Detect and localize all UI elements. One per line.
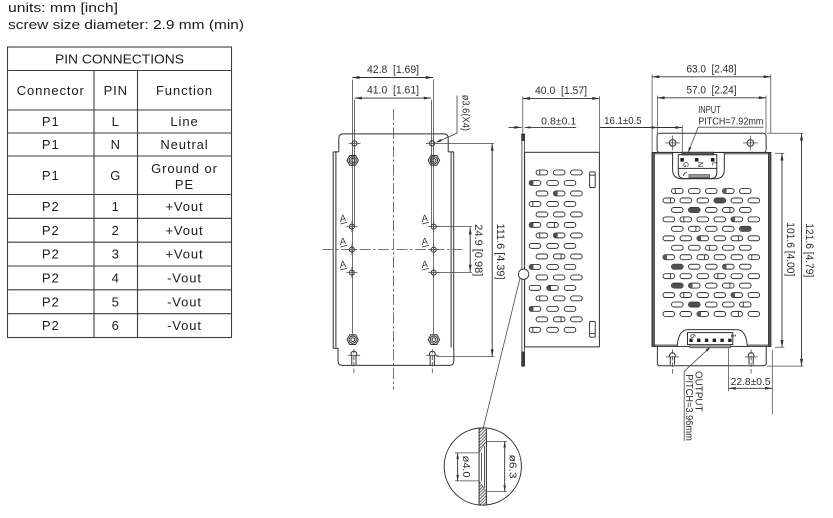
detail wall lines — [478, 428, 480, 504]
svg-text:+Vout: +Vout — [165, 247, 203, 262]
label A — [419, 236, 429, 248]
svg-text:24.9 [0.98]: 24.9 [0.98] — [472, 224, 484, 276]
view3 output recess — [677, 330, 747, 347]
view3 body top inner line — [654, 153, 672, 155]
svg-text:40.0 [1.57]: 40.0 [1.57] — [535, 85, 587, 97]
detail top hatch (countersink section) — [479, 417, 486, 468]
svg-text:22.8±0.5: 22.8±0.5 — [731, 376, 771, 388]
svg-text:G: G — [110, 168, 121, 183]
view2 mounting plate edge — [521, 134, 523, 367]
view1 hex standoff (433.9,160.4) — [428, 156, 439, 166]
view1 vertical centreline — [392, 109, 394, 390]
svg-text:L: L — [710, 162, 719, 166]
input pin G — [681, 158, 684, 161]
svg-text:4: 4 — [112, 271, 120, 286]
input pin N — [695, 158, 698, 161]
view1 hole A (351.9,226.6) — [349, 224, 354, 229]
dimension 63.0 [2.48] — [651, 75, 653, 152]
output pin 4 — [705, 339, 708, 342]
svg-text:PITCH=3.96mm: PITCH=3.96mm — [683, 374, 694, 441]
label OUTPUT PITCH leader — [684, 348, 710, 441]
svg-text:units: mm [inch]: units: mm [inch] — [8, 0, 118, 15]
svg-text:111.6 [4.39]: 111.6 [4.39] — [494, 224, 506, 280]
svg-text:1: 1 — [112, 199, 120, 214]
output pin 3 — [713, 339, 716, 342]
svg-text:6: 6 — [112, 318, 120, 333]
svg-text:63.0 [2.48]: 63.0 [2.48] — [687, 63, 737, 75]
output connector P2 body — [688, 333, 733, 345]
svg-text:5: 5 — [112, 294, 120, 309]
detail bottom hatch — [479, 474, 486, 518]
svg-text:121.6 [4.79]: 121.6 [4.79] — [803, 223, 815, 277]
svg-text:41.0 [1.61]: 41.0 [1.61] — [367, 85, 419, 97]
dimension 24.9 [0.98] — [437, 226, 472, 228]
svg-text:+Vout: +Vout — [165, 223, 203, 238]
view1 hole A (433.7,272.6) — [431, 270, 436, 275]
view1 hole A (351.9,249.6) — [349, 247, 354, 252]
svg-text:+Vout: +Vout — [165, 199, 203, 214]
output pin 6 — [690, 339, 693, 342]
detail dimension o6.3 — [486, 440, 507, 442]
label INPUT PITCH leader — [698, 126, 763, 128]
svg-text:P2: P2 — [42, 199, 60, 214]
view2 vent slots — [529, 170, 582, 332]
label A — [419, 213, 429, 225]
view3 input recess — [673, 153, 725, 179]
view1 keyhole slot x=353.9 — [351, 351, 357, 365]
svg-text:PITCH=7.92mm: PITCH=7.92mm — [698, 116, 763, 127]
svg-text:N: N — [111, 137, 121, 152]
svg-text:Neutral: Neutral — [160, 137, 208, 152]
dimension 111.6 [4.39] — [437, 142, 494, 144]
view1 hole A (433.7,249.6) — [431, 247, 436, 252]
svg-text:3: 3 — [112, 247, 120, 262]
view2 detail balloon — [518, 269, 528, 279]
svg-text:Connector: Connector — [17, 83, 85, 98]
label A — [337, 236, 347, 248]
svg-text:P1: P1 — [42, 168, 60, 183]
input pin L — [711, 158, 714, 161]
view1 horizontal centreline — [323, 249, 463, 251]
svg-text:P1: P1 — [42, 137, 60, 152]
svg-text:N: N — [696, 162, 705, 167]
detail dimension o4.0 — [455, 452, 479, 454]
svg-text:57.0 [2.24]: 57.0 [2.24] — [687, 84, 737, 96]
dimension 42.8 [1.69] — [352, 77, 433, 79]
view3 body bottom inner line — [654, 344, 677, 346]
svg-text:PIN CONNECTIONS: PIN CONNECTIONS — [55, 52, 184, 67]
view3 keyhole slot x=751.1 — [748, 353, 754, 365]
dimension 16.1+-0.5 — [600, 127, 682, 129]
view3 body outline — [652, 153, 771, 347]
dimension 40.0 [1.57] — [522, 96, 524, 134]
view1 bottom-plate outline — [333, 134, 454, 366]
svg-text:16.1±0.5: 16.1±0.5 — [604, 115, 642, 127]
view1 hex standoff (352.7,160.4) — [347, 156, 358, 166]
output pin 5 — [697, 339, 700, 342]
output pin 1 — [729, 339, 732, 342]
svg-text:-Vout: -Vout — [167, 271, 202, 286]
svg-text:101.6 [4.00]: 101.6 [4.00] — [784, 222, 796, 276]
svg-text:L: L — [112, 114, 120, 129]
view1 hole centre lines — [352, 80, 354, 335]
svg-text:G: G — [681, 162, 690, 168]
dimension 0.8+-0.1 — [509, 126, 522, 128]
svg-text:Line: Line — [170, 114, 198, 129]
svg-text:ø4.0: ø4.0 — [460, 456, 471, 478]
svg-text:PE: PE — [175, 177, 194, 192]
svg-text:P2: P2 — [42, 318, 60, 333]
view1 hex standoff (352.7,339.6) — [347, 335, 358, 345]
view2 seam tab top — [590, 172, 596, 188]
output pin 2 — [721, 339, 724, 342]
detail circle — [444, 428, 521, 505]
svg-text:Function: Function — [156, 83, 213, 98]
input connector lower housing — [678, 168, 717, 178]
svg-text:ø6.3: ø6.3 — [506, 455, 517, 479]
svg-text:42.8 [1.69]: 42.8 [1.69] — [367, 64, 419, 76]
view3 bottom plate — [657, 346, 766, 365]
view2 seam tab bottom — [590, 321, 596, 337]
svg-text:ø3.6(X4): ø3.6(X4) — [459, 95, 470, 131]
svg-text:P2: P2 — [42, 247, 60, 262]
view3 mounting flange — [657, 133, 766, 152]
label A — [337, 259, 347, 271]
svg-text:P1: P1 — [42, 114, 60, 129]
view1 keyhole slot x=432.3 — [429, 351, 435, 365]
view3 left side wall — [652, 153, 654, 347]
svg-text:2: 2 — [112, 223, 120, 238]
detail inner hole lines — [481, 453, 483, 481]
table PIN CONNECTIONS — [8, 47, 232, 338]
dimension 22.8+-0.5 — [728, 348, 730, 391]
svg-text:P2: P2 — [42, 223, 60, 238]
svg-text:Ground or: Ground or — [151, 161, 218, 176]
svg-text:0.8±0.1: 0.8±0.1 — [541, 115, 576, 127]
svg-text:6: 6 — [688, 334, 697, 338]
leader to detail circle — [483, 279, 520, 430]
output connector bottom bar — [690, 345, 731, 348]
dimension 57.0 [2.24] — [656, 96, 658, 134]
dimension 121.6 [4.79] — [767, 132, 803, 134]
view1 hole A (351.9,272.6) — [349, 270, 354, 275]
view1 screw hole o3.6 x=432.0 — [429, 141, 434, 146]
input connector P1 body — [678, 155, 717, 169]
svg-text:INPUT: INPUT — [698, 105, 721, 116]
svg-text:PIN: PIN — [104, 83, 128, 98]
svg-text:screw size diameter: 2.9 mm (m: screw size diameter: 2.9 mm (min) — [8, 17, 244, 32]
svg-text:P2: P2 — [42, 271, 60, 286]
svg-text:1: 1 — [729, 334, 738, 338]
dimension 41.0 [1.61] — [355, 97, 431, 99]
input connector top bar — [682, 152, 714, 155]
label A — [337, 213, 347, 225]
svg-text:-Vout: -Vout — [167, 318, 202, 333]
view3 flange hole x=750.4 — [747, 140, 754, 147]
svg-text:-Vout: -Vout — [167, 294, 202, 309]
view3 flange hole x=672.6 — [669, 140, 676, 147]
view3 right side wall — [768, 153, 770, 347]
view1 hole A (433.7,226.6) — [431, 224, 436, 229]
label A — [419, 259, 429, 271]
dimension 101.6 [4.00] — [775, 152, 784, 154]
svg-text:P2: P2 — [42, 294, 60, 309]
view1 screw hole o3.6 x=354.5 — [352, 141, 357, 146]
view3 vent slots — [663, 189, 760, 317]
view2 body outline — [525, 152, 600, 347]
view1 hex standoff (433.9,339.6) — [428, 335, 439, 345]
view3 keyhole slot x=672.4 — [670, 353, 676, 365]
label o3.6(X4) leader — [439, 96, 458, 142]
